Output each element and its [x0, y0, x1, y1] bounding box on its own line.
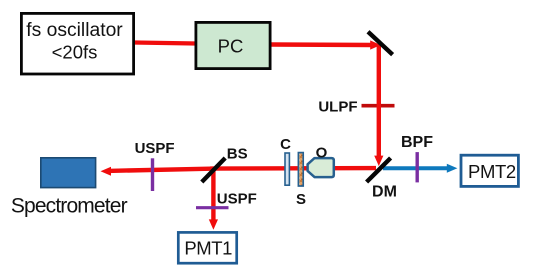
filter USPF tick above PMT1 (purple): [196, 206, 229, 209]
arrowhead into PMT2 (right): [447, 164, 458, 173]
arrowhead into PMT1 (down): [209, 219, 218, 229]
wire: blue line DM to PMT2: [383, 166, 447, 170]
filter BPF tick (purple): [416, 152, 419, 182]
wire: beam oscillator to PC: [134, 43, 196, 44]
filter ULPF tick (dark red): [362, 104, 395, 108]
dichroic mirror DM: [367, 158, 391, 182]
beam splitter BS: [202, 158, 225, 182]
wire: vertical beam mirror M1 down to DM: [377, 45, 381, 157]
box: PMT2: [461, 155, 518, 186]
svg-text:S: S: [296, 191, 306, 208]
svg-text:O: O: [316, 144, 328, 161]
box: fs oscillator: [21, 13, 133, 74]
svg-text:USPF: USPF: [217, 191, 257, 208]
wire: mid beam BS to DM: [210, 166, 376, 171]
svg-text:DM: DM: [372, 184, 397, 201]
wire: beam BS to spectrometer: [108, 169, 216, 171]
wire: vertical beam BS down to PMT1: [211, 169, 215, 220]
svg-text:PMT1: PMT1: [184, 238, 232, 259]
mirror M1: [368, 32, 393, 55]
chopper C slab: [285, 153, 289, 185]
svg-text:BPF: BPF: [401, 134, 433, 151]
sample S slab (textured): [298, 153, 303, 186]
wire: beam PC to mirror M1: [270, 42, 372, 47]
filter USPF tick near spectrometer (purple): [151, 158, 154, 191]
svg-text:USPF: USPF: [135, 140, 175, 157]
box: PC (pulse compressor): [196, 22, 270, 68]
svg-text:ULPF: ULPF: [318, 98, 357, 115]
arrowhead at DM (down): [374, 156, 383, 166]
arrowhead into spectrometer (left): [101, 167, 112, 176]
svg-text:BS: BS: [227, 146, 248, 163]
svg-text:PC: PC: [218, 36, 244, 57]
svg-text:fs oscillator: fs oscillator: [26, 20, 123, 41]
svg-text:Spectrometer: Spectrometer: [11, 195, 128, 218]
svg-text:<20fs: <20fs: [52, 42, 98, 63]
objective O: [308, 158, 334, 177]
box: PMT1: [178, 232, 236, 263]
arrowhead at mirror M1: [370, 40, 381, 49]
box: Spectrometer (blue): [41, 158, 96, 188]
svg-text:C: C: [280, 136, 291, 153]
svg-text:PMT2: PMT2: [468, 161, 516, 182]
